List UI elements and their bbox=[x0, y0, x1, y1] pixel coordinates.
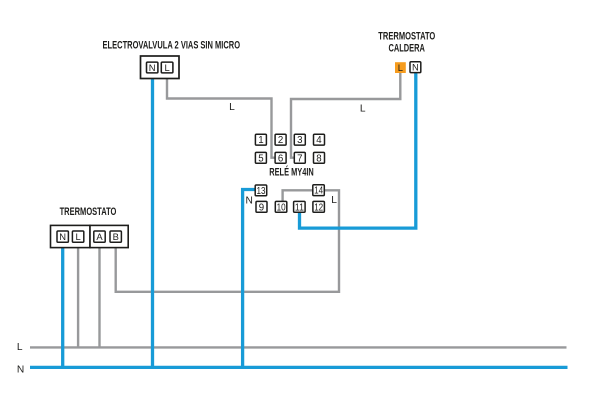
svg-text:N: N bbox=[412, 62, 419, 73]
svg-text:7: 7 bbox=[297, 153, 302, 164]
wire: electrovalvula N to N bus bbox=[151, 73, 154, 368]
wire: thermostat L to L bus bbox=[77, 242, 79, 347]
relay pin 8 bbox=[314, 152, 325, 163]
relay pin 4 bbox=[314, 134, 325, 145]
svg-text:9: 9 bbox=[259, 202, 264, 213]
electrovalvula terminal N bbox=[147, 62, 158, 73]
wire: relay pin 14 to thermostat B bbox=[116, 190, 339, 291]
svg-text:3: 3 bbox=[297, 135, 302, 146]
relay pin 7 bbox=[294, 152, 305, 163]
svg-text:N: N bbox=[59, 231, 66, 242]
wire: electrovalvula L to relay pin 6 bbox=[167, 73, 275, 158]
svg-text:11: 11 bbox=[295, 202, 304, 213]
svg-text:13: 13 bbox=[257, 186, 266, 197]
svg-text:L: L bbox=[360, 104, 366, 115]
relay pin 2 bbox=[275, 134, 286, 145]
caldera terminal N bbox=[410, 62, 421, 73]
thermostat terminal N bbox=[57, 231, 68, 242]
wire: thermostat A to L bus bbox=[98, 242, 100, 347]
svg-text:N: N bbox=[149, 62, 156, 73]
svg-text:L: L bbox=[229, 102, 235, 113]
wire: L bus (gray horizontal) bbox=[30, 346, 567, 348]
wire: N bus to relay pin 13 bbox=[243, 190, 256, 368]
wire: thermostat N to N bus bbox=[61, 242, 64, 367]
svg-text:4: 4 bbox=[316, 135, 322, 146]
wire: N bus (blue horizontal) bbox=[30, 366, 568, 369]
thermostat terminal block outline right (A,B) bbox=[90, 225, 128, 247]
svg-text:B: B bbox=[113, 231, 119, 242]
relay pin 1 bbox=[255, 134, 266, 145]
wire: relay pin 10 to pin 14 bbox=[283, 190, 313, 202]
relay pin 13 bbox=[255, 185, 267, 196]
electrovalvula terminal L bbox=[161, 62, 173, 73]
svg-text:L: L bbox=[331, 195, 337, 206]
svg-text:8: 8 bbox=[316, 153, 321, 164]
svg-text:2: 2 bbox=[278, 135, 283, 146]
thermostat terminal L bbox=[72, 231, 83, 242]
svg-text:ELECTROVALVULA 2 VIAS SIN MICR: ELECTROVALVULA 2 VIAS SIN MICRO bbox=[103, 40, 241, 52]
relay pin 11 bbox=[294, 201, 306, 212]
svg-text:12: 12 bbox=[314, 202, 323, 213]
svg-text:L: L bbox=[164, 62, 169, 73]
svg-text:TRERMOSTATO: TRERMOSTATO bbox=[60, 206, 117, 218]
svg-text:A: A bbox=[96, 231, 103, 242]
relay pin 3 bbox=[294, 134, 305, 145]
svg-text:L: L bbox=[398, 62, 403, 73]
svg-text:10: 10 bbox=[277, 202, 287, 213]
svg-text:1: 1 bbox=[258, 135, 263, 146]
relay pin 6 bbox=[275, 152, 286, 163]
relay pin 14 bbox=[313, 185, 325, 196]
caldera terminal L (orange) bbox=[395, 62, 406, 73]
svg-text:RELÉ MY4IN: RELÉ MY4IN bbox=[269, 166, 314, 179]
relay pin 12 bbox=[313, 201, 325, 212]
svg-text:CALDERA: CALDERA bbox=[388, 42, 425, 54]
svg-text:6: 6 bbox=[278, 153, 283, 164]
wire: caldera N to relay pin 11 bbox=[300, 73, 416, 229]
relay pin 10 bbox=[275, 201, 287, 212]
svg-text:N: N bbox=[17, 365, 24, 376]
svg-text:N: N bbox=[246, 195, 253, 206]
electrovalvula terminal block outline bbox=[141, 56, 180, 79]
relay pin 5 bbox=[255, 152, 266, 163]
svg-text:5: 5 bbox=[258, 153, 263, 164]
wire: caldera L to relay pin 7 bbox=[291, 73, 400, 158]
thermostat terminal A bbox=[94, 231, 105, 242]
svg-text:14: 14 bbox=[314, 186, 324, 197]
svg-text:L: L bbox=[17, 342, 23, 353]
relay pin 9 bbox=[256, 201, 267, 212]
svg-text:TRERMOSTATO: TRERMOSTATO bbox=[378, 31, 435, 43]
thermostat terminal B bbox=[110, 231, 121, 242]
thermostat terminal block outline left (N,L) bbox=[51, 225, 91, 247]
svg-text:L: L bbox=[75, 231, 80, 242]
